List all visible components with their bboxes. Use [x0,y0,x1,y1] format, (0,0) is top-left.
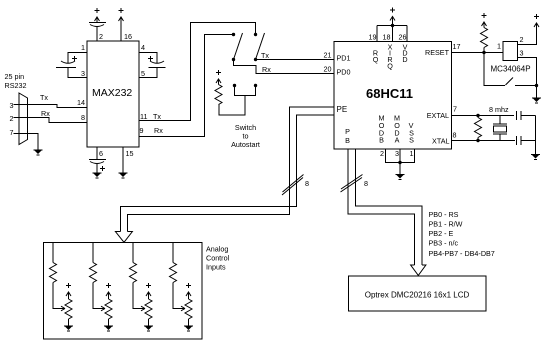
svg-text:B: B [345,136,350,145]
resistor R1 autostart pull-up [215,85,222,105]
svg-text:1: 1 [497,42,501,51]
svg-text:PB2 - E: PB2 - E [429,229,454,238]
capacitor C5 on EXTAL [517,111,536,120]
pin 2 of U3 to supply [518,23,537,45]
svg-text:8: 8 [81,113,85,122]
svg-text:EXTAL: EXTAL [427,111,449,120]
pin RESET label and 17 [425,42,484,57]
ground below reset switch [532,98,541,103]
svg-text:19: 19 [369,33,377,42]
capacitor C4 on pin 6 [89,160,106,173]
wiper arrow ch1 [61,306,65,311]
VDD rail with pins 19 18 26 [377,18,407,42]
capacitor C1 between pins 1 and 3 [56,56,77,68]
ground pot3 [144,326,153,331]
analog channel 2 wire [92,243,94,263]
svg-text:Analog: Analog [206,245,228,254]
svg-text:17: 17 [453,42,461,51]
pin 3 label and wire [68,68,87,79]
supply + above R1 [216,70,221,85]
wiper arrow ch4 [181,306,185,311]
pin 9 label and Rx wire to switch [139,35,234,137]
svg-text:RESET: RESET [425,48,450,57]
svg-text:Tx: Tx [153,112,161,121]
svg-text:PE: PE [337,105,348,114]
bus PE to analog inputs (8 lines) [121,107,335,232]
switch S2 manual reset [484,53,538,98]
resistor R7 [170,263,177,283]
svg-text:15: 15 [126,149,134,158]
supply + above R2 [482,13,487,28]
svg-text:26: 26 [399,33,407,42]
ground at J1 pin7 [34,150,43,155]
potentiometer VR4 [185,299,192,319]
svg-text:2: 2 [10,114,14,123]
port B signal list [429,210,495,258]
svg-text:7: 7 [10,128,14,137]
pin PB label vertical [345,127,350,145]
pin 6 bottom wire and label [97,147,103,159]
wire pot1 to ground [68,319,70,326]
svg-text:7: 7 [453,105,457,114]
pin 3 of U3 to ground rail [518,49,537,86]
bus PB to LCD (8 lines) [348,149,422,265]
wire R7 to pot wiper [173,283,182,309]
bus PE slash marks and 8 label [282,175,309,196]
MODB vertical label [379,114,385,145]
wire R5 to pot wiper [93,283,102,309]
pin 1 label and wire [68,43,87,63]
svg-text:MC34064P: MC34064P [491,65,531,74]
wire caps to ground [535,116,537,155]
IC U1 68HC11 [334,42,452,150]
resistor R2 reset pull-up [481,28,488,53]
svg-text:3: 3 [81,69,85,78]
resistor R3 across crystal [475,116,482,141]
svg-text:2: 2 [380,149,384,158]
pin 1 of U3 [484,42,503,53]
pin 11 label and Tx wire to switch [139,23,256,122]
analog control inputs box [44,243,203,340]
svg-text:MAX232: MAX232 [92,87,132,99]
switch S1 pole contacts [232,58,257,61]
resistor R6 [130,263,137,283]
svg-text:Inputs: Inputs [206,263,226,272]
wire pot2 to ground [108,319,110,326]
pin EXTAL label and 7 [427,105,514,121]
svg-text:P: P [345,127,350,136]
supply + pot 1 [66,283,71,299]
potentiometer VR2 [105,299,112,319]
svg-text:16: 16 [124,32,132,41]
wire Rx pole to 68HC11 PD0 [234,60,335,75]
svg-text:RS232: RS232 [5,81,27,90]
arrow head into analog box [115,232,132,243]
potentiometer VR3 [145,299,152,319]
wire pot3 to ground [148,319,150,326]
node XTAL junction [476,139,479,142]
analog channel 1 wire [52,243,54,263]
svg-text:1: 1 [410,149,414,158]
crystal Y1 8 mhz [489,105,509,141]
label Analog Control Inputs [206,245,230,272]
resistor R5 [90,263,97,283]
switch S1 DPDT top throw contacts [232,33,257,36]
capacitor C3 on pin 2 [89,17,106,27]
svg-text:5: 5 [141,69,145,78]
potentiometer VR1 [65,299,72,319]
wire Tx from J1 pin3 to MAX232 pin14 [14,93,88,108]
svg-text:Rx: Rx [154,126,163,135]
svg-text:B: B [379,136,384,145]
LCD module box [349,276,487,311]
label Switch to Autostart [231,123,260,149]
svg-text:S: S [409,136,414,145]
svg-text:XTAL: XTAL [432,137,449,146]
svg-text:8: 8 [364,179,368,188]
ground below crystal caps [531,155,540,160]
supply + pot 4 [186,283,191,299]
svg-text:2: 2 [99,32,103,41]
svg-text:A: A [395,136,400,145]
svg-text:18: 18 [383,33,391,42]
supply + pot 3 [146,283,151,299]
wire pot4 to ground [188,319,190,326]
ground pot1 [64,326,73,331]
svg-text:6: 6 [99,149,103,158]
svg-text:PD1: PD1 [337,54,351,63]
capacitor C2 between pins 4 and 5 [148,56,166,68]
svg-text:3: 3 [395,149,399,158]
wire J1 pin7 to ground [14,134,39,150]
svg-text:8: 8 [453,131,457,140]
svg-text:9: 9 [140,126,144,135]
svg-text:8 mhz: 8 mhz [489,105,509,114]
VDD vertical label [402,43,407,65]
wiper arrow ch2 [101,306,105,311]
switch S1 levers [234,33,265,60]
resistor R4 [50,263,57,283]
svg-text:Optrex DMC20216 16x1 LCD: Optrex DMC20216 16x1 LCD [365,291,470,300]
wire R4 to pot wiper [53,283,62,309]
IC U3 MC34064P [491,42,531,74]
svg-text:Rx: Rx [41,109,50,118]
analog channel 4 wire [172,243,174,263]
svg-text:20: 20 [324,65,332,74]
bus PB slash marks and 8 label [341,175,369,193]
svg-text:PB0 - RS: PB0 - RS [429,210,459,219]
svg-text:Tx: Tx [40,93,48,102]
wire R6 to pot wiper [133,283,142,309]
svg-text:PB4-PB7 - DB4-DB7: PB4-PB7 - DB4-DB7 [429,249,495,258]
svg-text:Rx: Rx [262,65,271,74]
svg-text:PB3 - n/c: PB3 - n/c [429,239,459,248]
pins 2 3 1 bottom rail to ground [380,149,415,174]
svg-text:1: 1 [81,43,85,52]
svg-text:25 pin: 25 pin [5,72,25,81]
svg-text:Q: Q [373,55,379,64]
pin 4 label and wire [139,43,157,63]
svg-text:PD0: PD0 [337,68,351,77]
node EXTAL junction [476,114,479,117]
svg-text:Autostart: Autostart [231,140,260,149]
svg-text:21: 21 [324,51,332,60]
wire Rx from J1 pin2 to MAX232 pin8 [14,109,88,123]
svg-text:11: 11 [140,112,147,121]
supply + pot 2 [106,283,111,299]
svg-text:2: 2 [520,35,524,44]
IC U2 MAX232 [87,41,139,147]
supply + at pin2 cap [95,8,100,21]
supply + above 68HC11 [390,8,395,21]
svg-text:Q: Q [387,62,393,71]
ground pot4 [184,326,193,331]
IRQ vertical label [373,49,379,65]
VSS vertical label [409,121,415,145]
pin 5 label and wire [139,68,157,79]
capacitor C6 on XTAL [517,136,536,145]
supply + at U3 pin2 [534,14,539,27]
node RESET junction [482,51,485,54]
supply + at pin16 [119,8,124,21]
arrow head into LCD [411,265,426,275]
wiper arrow ch3 [141,306,145,311]
connector J1 25 pin RS232 [5,72,28,145]
ground pot2 [104,326,113,331]
svg-text:D: D [402,55,407,64]
svg-text:3: 3 [520,49,524,58]
switch S1 bottom throw contacts [233,84,257,87]
svg-text:Control: Control [206,254,230,263]
svg-text:3: 3 [10,101,14,110]
svg-text:14: 14 [77,98,85,107]
pin 15 bottom wire and label [123,147,134,173]
ground at pin 15 [119,173,128,178]
svg-text:4: 4 [141,43,145,52]
svg-text:Tx: Tx [261,51,269,60]
svg-text:PB1 - R/W: PB1 - R/W [429,220,463,229]
pin XTAL label and 8 [432,131,515,146]
svg-text:8: 8 [305,179,309,188]
ground below 68HC11 [396,175,405,180]
MODA vertical label [394,114,400,145]
pin 16 top wire and label [121,17,132,41]
XIRQ vertical label [387,43,393,71]
analog channel 3 wire [132,243,134,263]
wire Tx pole to 68HC11 PD1 [256,51,335,60]
pin 2 top wire and label [97,27,103,42]
ground at pin 6 [93,173,102,178]
wire bottom throws to pull-up resistor [219,86,256,116]
svg-text:68HC11: 68HC11 [366,86,413,101]
